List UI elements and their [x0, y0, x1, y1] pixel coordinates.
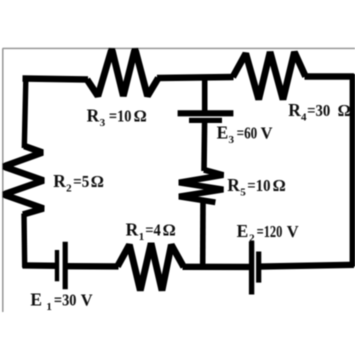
svg-text:Ω: Ω	[91, 172, 104, 191]
battery E3 short plate	[189, 118, 222, 123]
svg-text:=30: =30	[307, 103, 330, 121]
battery E2 short plate	[256, 252, 261, 283]
svg-text:E: E	[217, 122, 229, 142]
svg-text:V: V	[261, 123, 273, 142]
label R4 value	[288, 100, 350, 124]
battery E2 long plate	[249, 241, 254, 294]
label R5 value	[227, 175, 286, 199]
wire bottom-right	[261, 265, 355, 267]
wire left vertical upper	[24, 76, 26, 148]
label R2 value	[53, 171, 104, 195]
label R3 value	[87, 105, 147, 128]
svg-text:R: R	[87, 105, 100, 125]
resistor R5	[179, 170, 223, 203]
label E3 value	[217, 122, 273, 146]
wire top-left horizontal	[23, 79, 89, 80]
svg-text:1: 1	[46, 301, 52, 313]
wire top-middle	[157, 77, 234, 78]
svg-text:5: 5	[240, 187, 246, 199]
battery E1 long plate	[63, 242, 68, 289]
svg-text:3: 3	[100, 117, 106, 129]
wire middle branch between E3 and R5	[201, 122, 207, 172]
svg-text:R: R	[53, 171, 66, 191]
svg-text:=60: =60	[237, 125, 258, 143]
svg-text:R: R	[227, 175, 240, 195]
svg-text:E: E	[30, 289, 42, 309]
svg-text:=5: =5	[73, 174, 89, 192]
label E2 value	[237, 221, 299, 245]
svg-text:=4: =4	[145, 222, 161, 240]
svg-text:Ω: Ω	[163, 221, 176, 240]
svg-text:Ω: Ω	[273, 176, 286, 195]
resistor R4	[233, 52, 306, 100]
battery E1 short plate	[55, 250, 59, 281]
wire middle branch bottom	[200, 202, 206, 266]
frame left edge	[2, 48, 4, 312]
svg-text:2: 2	[66, 183, 72, 195]
wire bottom-left	[23, 262, 57, 269]
svg-text:R: R	[288, 100, 301, 120]
svg-text:2: 2	[249, 233, 255, 245]
svg-text:=120: =120	[257, 224, 283, 242]
wire middle branch top	[202, 78, 208, 112]
svg-text:Ω: Ω	[338, 101, 351, 120]
svg-text:4: 4	[301, 112, 307, 124]
wire E1 to R1	[66, 263, 119, 270]
wire left vertical lower	[21, 214, 27, 268]
battery E3 long plate	[178, 110, 234, 116]
resistor R2	[4, 146, 44, 215]
wire top-right horizontal	[305, 73, 355, 80]
svg-text:E: E	[237, 221, 249, 241]
svg-text:=10: =10	[247, 177, 270, 195]
svg-text:V: V	[287, 222, 299, 241]
svg-text:=10: =10	[109, 108, 132, 126]
frame top edge	[3, 47, 355, 49]
svg-text:=30: =30	[54, 291, 77, 309]
wire right vertical	[350, 74, 355, 267]
label E1 value	[30, 289, 92, 313]
svg-text:3: 3	[229, 134, 235, 146]
resistor R3	[87, 49, 158, 96]
svg-text:1: 1	[139, 231, 145, 243]
resistor R1	[118, 243, 184, 290]
wire R1 to E2 (through bottom junction)	[183, 264, 251, 271]
label R1 value	[126, 220, 176, 244]
svg-text:R: R	[126, 220, 139, 240]
svg-text:Ω: Ω	[134, 106, 147, 125]
svg-text:V: V	[81, 290, 93, 309]
